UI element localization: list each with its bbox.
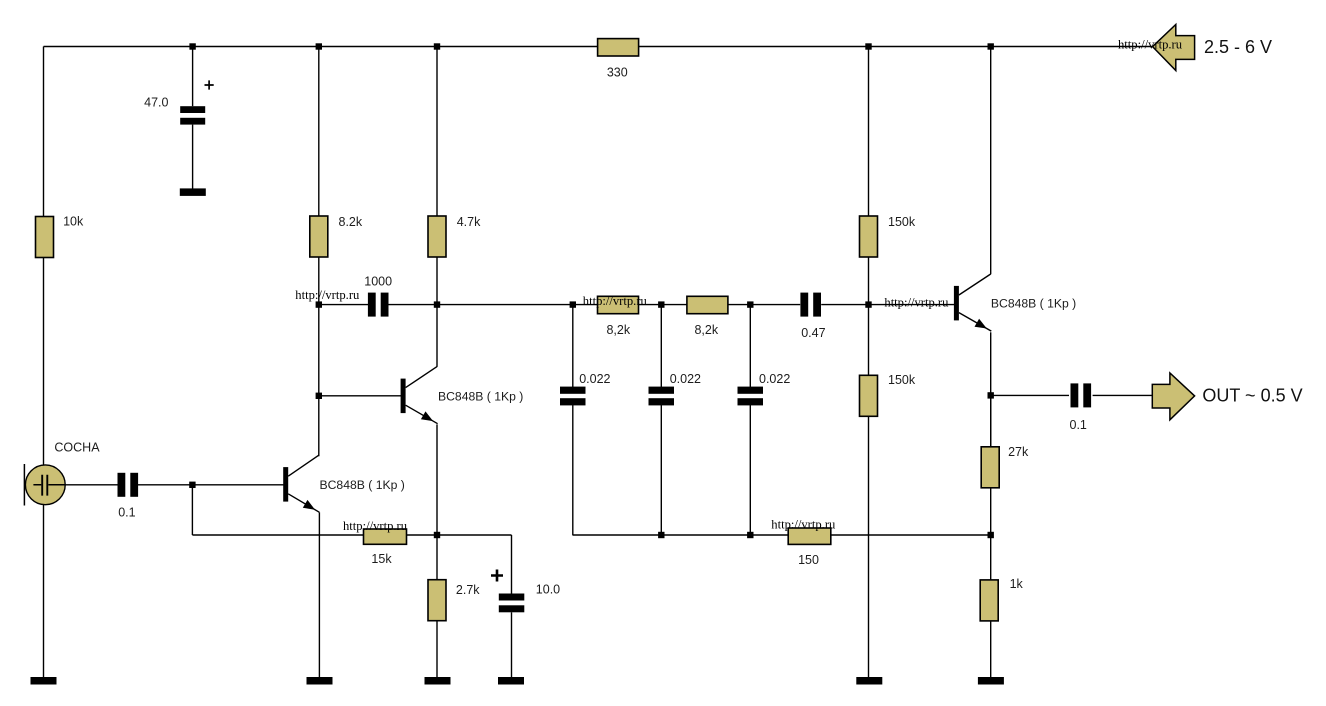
wire out node to cap 0.1 [991, 394, 1069, 396]
wire 15k to Q2 emitter node [407, 534, 512, 536]
wire col H to bottom row [749, 405, 751, 535]
junction top rail at col C [316, 43, 322, 49]
wire microphone to ground [43, 505, 45, 677]
supply arrow 2.5-6V [1153, 25, 1195, 71]
resistor 1k [980, 580, 998, 621]
svg-text:150k: 150k [888, 373, 916, 387]
wire col F to bottom row [572, 405, 574, 535]
capacitor 0.1 input [118, 473, 139, 497]
svg-text:8,2k: 8,2k [606, 323, 630, 337]
junction mid row col D [434, 301, 440, 307]
wire bottom row to 150 [573, 534, 788, 536]
capacitor 1000 [368, 293, 389, 317]
wire col C resistor to Q1 collector [318, 257, 320, 456]
svg-text:0.1: 0.1 [1070, 418, 1087, 432]
plus sign of 10.0 [491, 570, 503, 582]
svg-text:0.022: 0.022 [670, 372, 701, 386]
wire col D resistor to Q2 collector [436, 257, 438, 367]
wire col G to bottom row [660, 405, 662, 535]
capacitor 10.0 electrolytic [499, 594, 525, 613]
svg-text:BC848B ( 1Kp ): BC848B ( 1Kp ) [320, 478, 405, 492]
capacitor 0.47 [800, 293, 821, 317]
junction Q2 base node [316, 393, 322, 399]
svg-text:10.0: 10.0 [536, 582, 560, 596]
svg-text:1000: 1000 [364, 275, 392, 289]
junction mid row col F [570, 301, 576, 307]
svg-text:http://vrtp.ru: http://vrtp.ru [884, 295, 949, 309]
svg-text:0.022: 0.022 [759, 372, 790, 386]
svg-text:0.47: 0.47 [801, 326, 825, 340]
wire 150 to col J [831, 534, 991, 536]
wire 47.0 cap bottom lead [192, 125, 194, 189]
svg-text:http://vrtp.ru: http://vrtp.ru [295, 288, 360, 302]
wire Q2 base from col C [319, 395, 401, 397]
resistor 4.7k [428, 216, 446, 257]
wire microphone to cap 0.1 [65, 484, 118, 486]
wire mid row cap 0.47 to Q3 base [821, 304, 954, 306]
junction mid row col H [747, 301, 753, 307]
wire col D from rail to resistor [436, 47, 438, 217]
resistor 8,2k right [687, 296, 728, 313]
wire col J rail to Q3 collector [990, 47, 992, 275]
capacitor 0.1 output [1071, 383, 1092, 407]
ground under microphone [31, 677, 57, 685]
svg-text:http://vrtp.ru: http://vrtp.ru [343, 519, 408, 533]
wire top supply rail [44, 46, 1153, 48]
wire mid row D to 8.2k [437, 304, 597, 306]
wire cap 10.0 to ground [511, 612, 513, 677]
resistor 150 [788, 528, 831, 544]
resistor 8,2k left [598, 296, 639, 313]
junction output node [988, 392, 994, 398]
junction mid row col G [658, 301, 664, 307]
capacitor 0.022 second [649, 387, 675, 406]
wire cap 0.1 to Q1 base [138, 484, 284, 486]
transistor Q1 BC848B [283, 455, 319, 512]
wire 27k to bottom node [990, 488, 992, 580]
resistor 2.7k [428, 580, 446, 621]
svg-text:http://vrtp.ru: http://vrtp.ru [1118, 37, 1183, 51]
svg-text:47.0: 47.0 [144, 96, 168, 110]
wire mid row between 8.2k resistors [639, 304, 687, 306]
resistor 10k [36, 217, 54, 258]
output arrow OUT [1152, 373, 1194, 420]
svg-text:15k: 15k [371, 552, 392, 566]
ground under Q1 emitter [307, 677, 333, 685]
wire col F cap lead [572, 305, 574, 387]
wire out node to 27k [990, 395, 992, 447]
junction node A after cap 0.1 [189, 482, 195, 488]
resistor 150k upper [860, 216, 878, 257]
wire cap 0.1 to out arrow [1093, 394, 1153, 396]
capacitor 0.022 first [560, 387, 586, 406]
wire cap 1000 to col D [388, 304, 437, 306]
svg-text:BC848B ( 1Kp ): BC848B ( 1Kp ) [438, 390, 523, 404]
junction bottom row col H [747, 532, 753, 538]
wire 2.7k top lead [436, 535, 438, 580]
svg-text:0.1: 0.1 [118, 506, 135, 520]
svg-text:8,2k: 8,2k [694, 323, 718, 337]
plus sign of 47.0 [205, 80, 214, 89]
ground under col I [856, 677, 882, 685]
svg-text:OUT ~ 0.5 V: OUT ~ 0.5 V [1202, 386, 1302, 406]
wire Q1 emitter to ground [318, 512, 320, 677]
wire col G cap lead [660, 305, 662, 387]
resistor 8.2k [310, 216, 328, 257]
wire node A drop to feedback row [191, 485, 193, 535]
microphone COCHA [24, 464, 65, 506]
wire 2.7k to ground [436, 621, 438, 677]
junction bottom row col J [988, 532, 994, 538]
svg-text:1k: 1k [1010, 577, 1024, 591]
wire mid row C to cap 1000 [319, 304, 368, 306]
svg-text:0.022: 0.022 [579, 372, 610, 386]
transistor Q2 BC848B [401, 367, 438, 424]
wire col I rail to 150k [868, 47, 870, 217]
ground under 10.0 cap [498, 677, 524, 685]
wire mid row 8.2k to cap 0.47 [728, 304, 800, 306]
junction top rail at col I [865, 43, 871, 49]
wire 1k to ground [990, 621, 992, 677]
svg-text:4.7k: 4.7k [457, 215, 481, 229]
svg-text:http://vrtp.ru: http://vrtp.ru [771, 518, 836, 532]
wire Q3 emitter to out node [990, 332, 992, 447]
capacitor 47.0 electrolytic [180, 106, 205, 124]
junction top rail at col D [434, 43, 440, 49]
transistor Q3 BC848B [954, 274, 991, 331]
wire col I between 150k resistors [868, 257, 870, 375]
junction mid row col C [316, 301, 322, 307]
junction Q2 emitter feedback node [434, 532, 440, 538]
svg-text:8.2k: 8.2k [339, 215, 363, 229]
svg-text:27k: 27k [1008, 445, 1029, 459]
svg-text:150: 150 [798, 553, 819, 567]
ground under 2.7k [425, 677, 451, 685]
wire 47.0 cap top lead [192, 47, 194, 107]
svg-text:10k: 10k [63, 214, 84, 228]
svg-text:2.5 - 6 V: 2.5 - 6 V [1204, 37, 1272, 57]
ground under 1k [978, 677, 1004, 685]
svg-text:2.7k: 2.7k [456, 583, 480, 597]
svg-text:http://vrtp.ru: http://vrtp.ru [583, 294, 648, 308]
svg-text:COCHA: COCHA [54, 441, 100, 455]
wire Q2 emitter down to feedback row [436, 424, 438, 535]
capacitor 0.022 third [738, 387, 764, 406]
resistor 150k lower [860, 375, 878, 416]
wire down to cap 10.0 [511, 535, 513, 594]
wire left rail down to microphone [43, 47, 45, 466]
junction bottom row col G [658, 532, 664, 538]
wire feedback row left segment [192, 534, 363, 536]
junction mid row col I [865, 301, 871, 307]
wire col I 150k to ground [868, 417, 870, 677]
junction top rail at 47.0 cap [189, 43, 195, 49]
resistor 27k [981, 447, 999, 488]
wire col C from rail to resistor [318, 47, 320, 217]
resistor 15k [364, 529, 407, 544]
wire col H cap lead [749, 305, 751, 387]
svg-text:330: 330 [607, 65, 628, 79]
svg-text:BC848B ( 1Kp ): BC848B ( 1Kp ) [991, 297, 1076, 311]
ground under 47.0 cap [180, 188, 206, 196]
junction top rail at col J [988, 43, 994, 49]
svg-text:150k: 150k [888, 215, 916, 229]
resistor 330 [598, 39, 639, 56]
